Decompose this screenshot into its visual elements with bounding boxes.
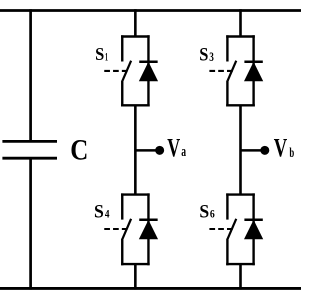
svg-text:V: V: [167, 133, 180, 162]
svg-text:a: a: [181, 143, 186, 160]
svg-text:6: 6: [210, 209, 215, 221]
svg-text:S: S: [94, 201, 104, 222]
svg-text:S: S: [199, 44, 208, 65]
svg-text:C: C: [70, 134, 88, 166]
svg-text:1: 1: [105, 50, 108, 63]
svg-text:b: b: [289, 145, 294, 161]
svg-text:3: 3: [209, 51, 214, 65]
svg-text:4: 4: [105, 209, 110, 221]
svg-text:S: S: [95, 43, 104, 64]
svg-text:S: S: [199, 201, 209, 222]
svg-text:V: V: [274, 134, 288, 163]
